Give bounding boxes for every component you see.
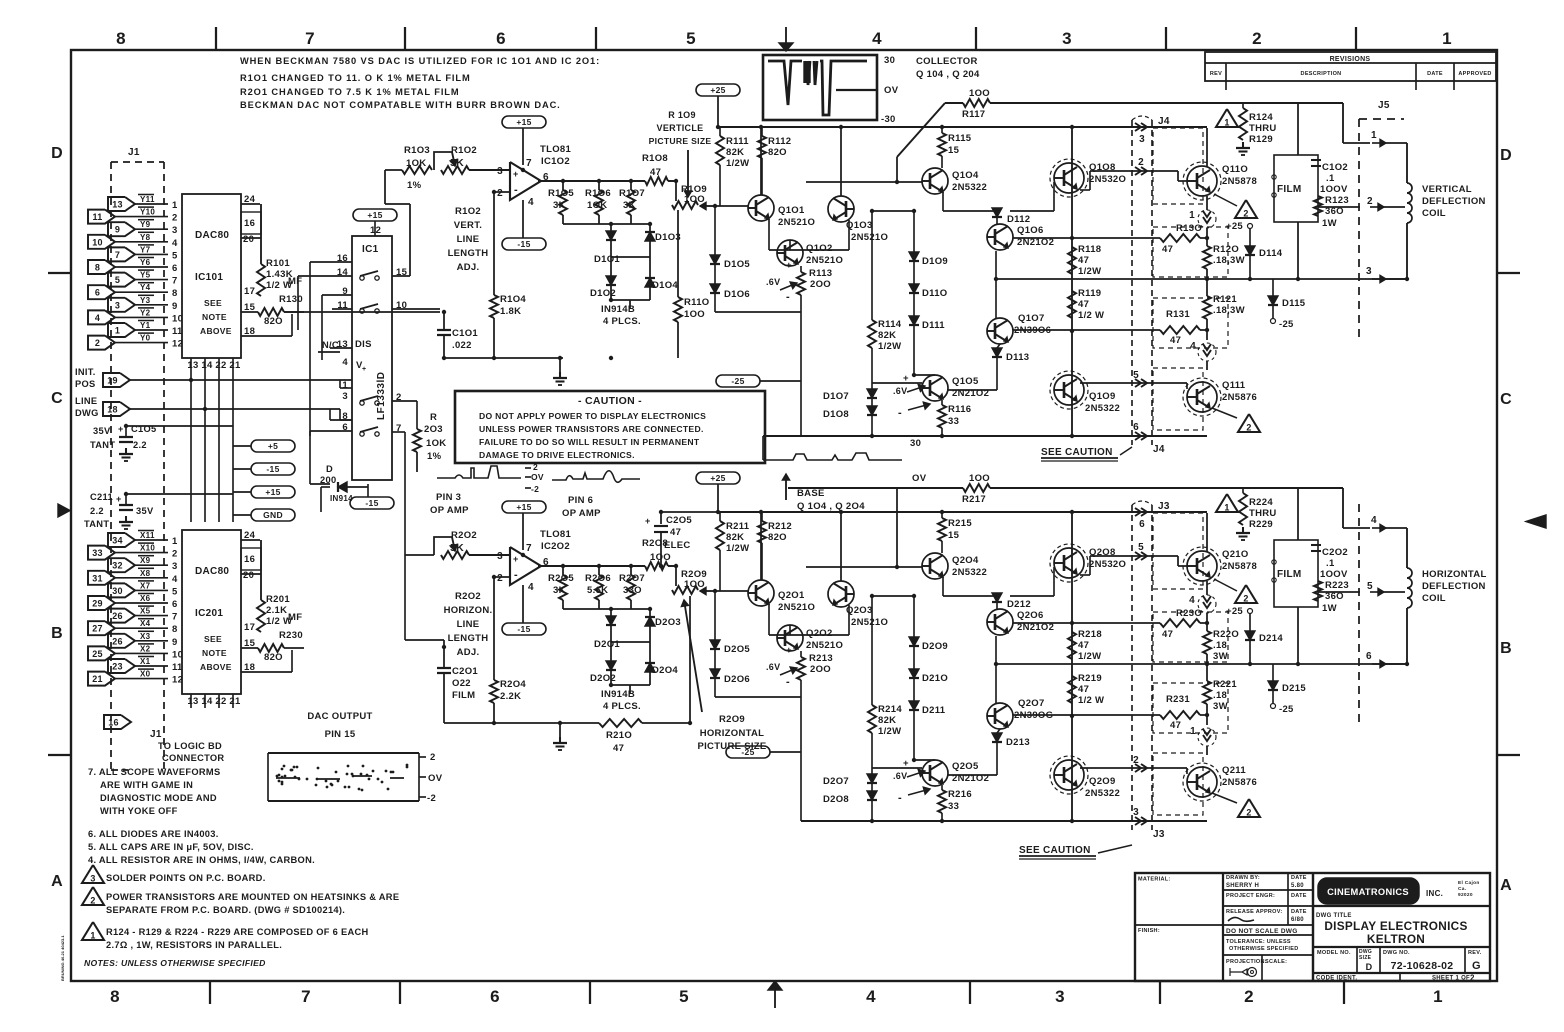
svg-text:1%: 1% (427, 451, 442, 462)
svg-text:21: 21 (229, 696, 241, 707)
wire bottom rail (763, 435, 1207, 437)
transistor Q111 (1187, 382, 1217, 412)
svg-text:13: 13 (112, 200, 123, 210)
svg-text:5. ALL CAPS ARE IN μF, 5: 5. ALL CAPS ARE IN μF, 5OV, DISC. (88, 842, 254, 852)
svg-text:BECKMAN DAC NOT COMPATABLE: BECKMAN DAC NOT COMPATABLE WITH BURR BRO… (240, 100, 561, 110)
connector flag 13 (108, 197, 135, 211)
svg-text:CONNECTOR: CONNECTOR (162, 753, 224, 763)
svg-text:D1O5: D1O5 (724, 259, 750, 270)
svg-text:4: 4 (1189, 595, 1195, 606)
connector flag 21 (88, 672, 115, 686)
svg-text:INC.: INC. (1426, 889, 1443, 898)
IC1 switch (360, 401, 364, 405)
wire film box bottom (1297, 607, 1299, 664)
svg-text:+15: +15 (516, 117, 531, 127)
resistor R13O (1160, 234, 1200, 242)
svg-text:4: 4 (342, 357, 348, 368)
svg-text:R214: R214 (878, 704, 902, 715)
svg-text:OTHERWISE SPECIFIED: OTHERWISE SPECIFIED (1229, 946, 1298, 952)
svg-text:D: D (51, 145, 63, 162)
svg-text:82K: 82K (726, 532, 744, 543)
svg-text:C1O1: C1O1 (452, 328, 478, 339)
svg-text:- CAUTION -: - CAUTION - (578, 395, 642, 407)
resistor R224 thru R229 (1242, 488, 1244, 493)
connector flag 9 (108, 222, 135, 236)
wire feedback (385, 169, 402, 171)
svg-text:ADJ.: ADJ. (457, 262, 480, 273)
svg-text:X7: X7 (140, 581, 151, 590)
J4 pin 3 (1135, 123, 1141, 131)
svg-text:R: R (430, 412, 437, 423)
svg-text:2N521O: 2N521O (806, 255, 843, 266)
svg-text:A: A (1500, 877, 1512, 894)
svg-text:R1O2: R1O2 (455, 206, 481, 217)
resistor R2O6 (595, 575, 603, 600)
wire mid rail (996, 663, 1406, 665)
svg-text:D114: D114 (1259, 248, 1283, 259)
svg-text:15: 15 (948, 145, 960, 156)
wire emitters (768, 604, 770, 635)
svg-text:1: 1 (1224, 118, 1229, 128)
svg-text:2N5322: 2N5322 (952, 567, 987, 578)
transistor Q1O6 (987, 224, 1013, 250)
svg-text:VERTICAL: VERTICAL (1422, 184, 1472, 195)
svg-text:3: 3 (342, 391, 348, 402)
svg-text:RELEASE APPROV:: RELEASE APPROV: (1226, 909, 1283, 915)
svg-text:3: 3 (497, 551, 503, 562)
svg-text:1OO: 1OO (684, 579, 705, 590)
wire opamp output (538, 180, 645, 182)
svg-text:R1O1 CHANGED TO 11. O K 1%: R1O1 CHANGED TO 11. O K 1% METAL FILM (240, 73, 471, 83)
connector node 4 (1206, 581, 1208, 595)
wire bridge bottom (611, 684, 650, 686)
svg-text:12: 12 (172, 339, 183, 350)
svg-text:1OOV: 1OOV (1320, 184, 1348, 195)
svg-text:R221: R221 (1213, 679, 1237, 690)
svg-text:2N5876: 2N5876 (1222, 392, 1257, 403)
warning triangle 1 R124 (1216, 109, 1238, 127)
svg-text:Q11O: Q11O (1222, 164, 1248, 175)
wire base line (806, 566, 922, 568)
svg-text:SEE: SEE (204, 634, 222, 644)
svg-text:X9: X9 (140, 556, 151, 565)
wire bridge top (562, 600, 564, 609)
svg-text:4: 4 (1371, 515, 1377, 526)
wire Q06 emitter chain (995, 636, 997, 703)
svg-text:DO NOT APPLY POWER TO DIS: DO NOT APPLY POWER TO DISPLAY ELECTRONIC… (479, 411, 706, 421)
connector flag 2 (88, 336, 115, 350)
wire base line (806, 181, 922, 183)
transistor Q2O2 (777, 625, 803, 651)
svg-text:R218: R218 (1078, 629, 1102, 640)
svg-text:1: 1 (1371, 130, 1377, 141)
svg-text:7: 7 (526, 543, 532, 554)
connector J3 dashed (1131, 505, 1133, 830)
svg-text:1.8K: 1.8K (500, 306, 521, 317)
wire rail B (718, 511, 1207, 513)
resistor R223 (1314, 581, 1322, 601)
svg-text:82O: 82O (264, 316, 283, 327)
svg-text:Q2O1: Q2O1 (778, 590, 805, 601)
svg-text:1OOV: 1OOV (1320, 569, 1348, 580)
svg-text:MF: MF (288, 612, 302, 623)
svg-text:R211: R211 (726, 521, 750, 532)
svg-text:+25: +25 (1226, 221, 1243, 232)
svg-text:CODE IDENT.: CODE IDENT. (1316, 976, 1357, 982)
svg-text:LENGTH: LENGTH (448, 633, 489, 644)
svg-text:4: 4 (172, 238, 178, 249)
svg-text:CINEMATRONICS: CINEMATRONICS (1327, 887, 1409, 897)
svg-text:6: 6 (1366, 651, 1372, 662)
resistor R219 (1068, 676, 1076, 703)
svg-text:R1O6: R1O6 (585, 188, 611, 199)
svg-text:82K: 82K (726, 147, 744, 158)
svg-text:R118: R118 (1078, 244, 1101, 255)
svg-text:7: 7 (526, 158, 532, 169)
svg-text:LINE: LINE (75, 396, 97, 406)
svg-text:UNLESS POWER TRANSISTORS AR: UNLESS POWER TRANSISTORS ARE CONNECTED. (479, 424, 704, 434)
svg-text:IN914B: IN914B (601, 304, 635, 315)
svg-text:R121: R121 (1213, 294, 1237, 305)
svg-text:6: 6 (1139, 519, 1145, 530)
svg-text:X4: X4 (140, 619, 151, 628)
svg-text:R12O: R12O (1213, 244, 1239, 255)
svg-text:1/2W: 1/2W (1078, 266, 1101, 277)
svg-text:.1: .1 (1326, 173, 1335, 184)
wire diode chain (913, 596, 915, 637)
svg-text:HORIZONTAL: HORIZONTAL (700, 728, 765, 739)
svg-text:+: + (786, 260, 792, 271)
capacitor C2O2 (1311, 544, 1321, 546)
svg-text:IC1: IC1 (362, 244, 379, 255)
wire Q06 emitter chain (995, 251, 997, 318)
svg-text:5: 5 (686, 29, 696, 48)
resistor R124 thru R129 (1242, 103, 1244, 108)
svg-text:35V: 35V (136, 506, 154, 516)
svg-text:OV: OV (912, 473, 927, 484)
note 3 (82, 865, 104, 883)
svg-text:2N5878: 2N5878 (1222, 176, 1257, 187)
svg-text:Q2O7: Q2O7 (1018, 698, 1045, 709)
svg-text:Q1O1: Q1O1 (778, 205, 805, 216)
diode D2O5 (714, 591, 716, 640)
wire IC1 pin16 (310, 261, 352, 263)
resistor R114 (871, 250, 873, 320)
power pill -15 (251, 463, 295, 475)
zone ticks top (215, 27, 217, 50)
svg-text:7. ALL SCOPE WAVEFORMS: 7. ALL SCOPE WAVEFORMS (88, 767, 220, 777)
connector flag 31 (88, 571, 115, 585)
svg-text:2: 2 (1244, 987, 1254, 1006)
connector flag 1 (108, 323, 135, 337)
connector J5 dashed V (1358, 119, 1360, 340)
svg-text:R2O2: R2O2 (451, 530, 477, 541)
svg-text:R216: R216 (948, 789, 972, 800)
connector node 1 (1206, 196, 1208, 210)
svg-text:R2O1 CHANGED TO 7.5 K 1%: R2O1 CHANGED TO 7.5 K 1% METAL FILM (240, 87, 460, 97)
svg-text:J3: J3 (1158, 501, 1170, 512)
svg-text:33: 33 (948, 801, 959, 812)
svg-text:Q211: Q211 (1222, 765, 1246, 776)
wire Q04 emitter (942, 192, 944, 211)
svg-text:D1O7: D1O7 (823, 391, 849, 402)
svg-text:29: 29 (92, 599, 103, 609)
svg-text:Q2O2: Q2O2 (806, 628, 833, 639)
svg-text:1%: 1% (407, 180, 422, 191)
svg-text:R2O6: R2O6 (585, 573, 611, 584)
svg-text:2.2: 2.2 (133, 440, 147, 450)
pin 3 waveform (437, 466, 521, 478)
connector flag 33 (88, 546, 115, 560)
svg-text:X6: X6 (140, 594, 151, 603)
svg-text:SOLDER POINTS ON P.C. BOARD: SOLDER POINTS ON P.C. BOARD. (106, 873, 266, 883)
svg-text:9: 9 (172, 637, 178, 648)
svg-text:IN914B: IN914B (601, 689, 635, 700)
transistor Q1O8 (1054, 163, 1084, 193)
wire long vertical (1071, 512, 1073, 821)
connector flag 3 (108, 298, 135, 312)
svg-text:D11O: D11O (922, 288, 948, 299)
resistor R212 (761, 512, 763, 521)
svg-text:GND: GND (263, 510, 283, 520)
connector flag 29 (88, 596, 115, 610)
warning triangle 2 Q11O (1214, 194, 1237, 206)
transistor Q2O7 (987, 703, 1013, 729)
svg-text:8: 8 (110, 987, 120, 1006)
wire rail drop (896, 488, 898, 567)
connector flag 7 (108, 247, 135, 261)
svg-text:5: 5 (679, 987, 689, 1006)
resistor R215 (941, 512, 943, 518)
resistor R2O4 (490, 680, 498, 703)
svg-text:2: 2 (1470, 974, 1475, 983)
svg-text:D2O1: D2O1 (594, 639, 620, 650)
svg-text:SEE CAUTION: SEE CAUTION (1041, 447, 1113, 458)
svg-text:DATE: DATE (1427, 71, 1443, 77)
svg-text:R1O7: R1O7 (619, 188, 645, 199)
svg-text:33: 33 (92, 548, 103, 558)
svg-text:1OO: 1OO (969, 473, 990, 484)
resistor R211 (719, 512, 721, 521)
diode D1O3 (649, 224, 651, 232)
connector node 1 (1198, 728, 1216, 746)
svg-text:D115: D115 (1282, 298, 1306, 309)
power pill +15 (251, 486, 295, 498)
svg-text:R 1O9: R 1O9 (668, 110, 696, 120)
svg-text:2: 2 (533, 462, 538, 472)
power pill -25 V (716, 375, 760, 387)
svg-text:LINE: LINE (457, 234, 480, 245)
diode D1O6 (714, 264, 716, 284)
svg-text:D2O2: D2O2 (590, 673, 616, 684)
svg-text:SEE CAUTION: SEE CAUTION (1019, 845, 1091, 856)
svg-text:TLO81: TLO81 (540, 144, 571, 155)
svg-text:Q1O5: Q1O5 (952, 376, 979, 387)
transistor Q1O9 (1054, 375, 1084, 405)
transistor Q11O (1187, 166, 1217, 196)
svg-text:A: A (51, 873, 63, 890)
svg-text:R2O4: R2O4 (500, 679, 526, 690)
svg-text:R115: R115 (948, 133, 972, 144)
svg-text:R224: R224 (1249, 497, 1273, 508)
film capacitor box C1O2 (1274, 155, 1318, 222)
svg-text:2O3: 2O3 (424, 424, 443, 435)
svg-text:X5: X5 (140, 607, 151, 616)
svg-text:BRUNING 40-21 40423.1: BRUNING 40-21 40423.1 (60, 935, 65, 981)
svg-text:DIAGNOSTIC MODE AND: DIAGNOSTIC MODE AND (100, 793, 217, 803)
svg-text:8: 8 (172, 288, 178, 299)
svg-text:-30: -30 (881, 114, 896, 125)
svg-text:R213: R213 (809, 653, 833, 664)
IC101 pins 16 20 box (241, 212, 261, 234)
svg-text:SIZE: SIZE (1359, 955, 1372, 961)
svg-text:3: 3 (90, 874, 95, 884)
connector flag 26 (108, 634, 135, 648)
svg-text:J3: J3 (1153, 829, 1165, 840)
svg-text:IC2O2: IC2O2 (541, 541, 570, 552)
svg-text:Y7: Y7 (140, 245, 151, 254)
svg-text:+15: +15 (265, 487, 280, 497)
svg-text:1/2 W: 1/2 W (1078, 310, 1104, 321)
wire opamp input (469, 169, 510, 171)
svg-text:TLO81: TLO81 (540, 529, 571, 540)
svg-text:Q2O6: Q2O6 (1017, 610, 1044, 621)
wire -25 feed (770, 751, 801, 753)
svg-text:10: 10 (92, 237, 103, 247)
svg-text:2: 2 (90, 896, 95, 906)
diode D1O5 (714, 206, 716, 255)
svg-text:X1: X1 (140, 657, 151, 666)
wire Q08 emitter to pin (1080, 574, 1090, 576)
film capacitor box C2O2 (1274, 540, 1318, 607)
svg-text:B: B (51, 625, 63, 642)
svg-text:1/2W: 1/2W (726, 543, 749, 554)
svg-text:2.7Ω , 1W, RESISTORS IN PAR: 2.7Ω , 1W, RESISTORS IN PARALLEL. (106, 940, 282, 950)
J4 pin 2 (1135, 167, 1141, 175)
svg-text:R101: R101 (266, 258, 290, 269)
svg-text:THRU: THRU (1249, 508, 1277, 519)
warning triangle 1 R224 (1216, 494, 1238, 512)
svg-text:MATERIAL:: MATERIAL: (1138, 877, 1171, 883)
svg-text:4. ALL RESISTOR ARE IN OH: 4. ALL RESISTOR ARE IN OHMS, I/4W, CARBO… (88, 855, 315, 865)
connector flag 25 (88, 646, 115, 660)
svg-text:+: + (362, 366, 366, 373)
svg-text:R11O: R11O (684, 297, 710, 308)
svg-text:3: 3 (497, 166, 503, 177)
svg-text:R2O5: R2O5 (548, 573, 574, 584)
svg-text:2: 2 (430, 752, 436, 763)
svg-text:1OO: 1OO (684, 309, 705, 320)
zone ticks sides (48, 272, 71, 274)
resistor R113 (800, 266, 802, 272)
connector J5 dashed H (1358, 504, 1360, 725)
svg-text:.18: .18 (1213, 640, 1227, 651)
svg-text:ELEC: ELEC (664, 540, 691, 551)
svg-text:NOTES: UNLESS OTHERWISE SPECIF: NOTES: UNLESS OTHERWISE SPECIFIED (84, 958, 266, 968)
resistor R101 (260, 252, 262, 264)
wire IC1 pin11 (332, 308, 352, 310)
svg-text:-: - (898, 407, 902, 419)
svg-text:R129: R129 (1249, 134, 1273, 145)
svg-text:33: 33 (948, 416, 959, 427)
svg-text:4: 4 (95, 313, 100, 323)
svg-text:ADJ.: ADJ. (457, 647, 480, 658)
svg-text:92020: 92020 (1458, 892, 1473, 898)
svg-text:B: B (1500, 640, 1512, 657)
svg-text:J5: J5 (1378, 100, 1390, 111)
J4 pin 5 (1135, 379, 1141, 387)
wire emitter bus (715, 311, 801, 313)
diode D111 (909, 316, 919, 325)
deflection coil HORIZONTAL (1407, 568, 1412, 608)
svg-text:13: 13 (187, 696, 198, 707)
svg-text:D1O2: D1O2 (590, 288, 616, 299)
svg-text:2: 2 (497, 573, 503, 584)
svg-text:R114: R114 (878, 319, 902, 330)
svg-text:REV.: REV. (1468, 950, 1482, 956)
wire opamp minus input (494, 576, 510, 578)
title block (1135, 873, 1490, 981)
transistor Q1O1 (748, 195, 774, 221)
svg-text:47: 47 (1078, 640, 1089, 651)
resistor R110 (677, 210, 679, 297)
svg-text:D: D (1366, 962, 1373, 972)
svg-text:OV: OV (428, 773, 443, 784)
resistor R1O4 (490, 295, 498, 318)
svg-text:PROJECTION:: PROJECTION: (1226, 959, 1267, 965)
svg-text:-15: -15 (517, 239, 530, 249)
connector flag 4 (88, 310, 115, 324)
svg-text:IC101: IC101 (195, 272, 223, 283)
svg-text:FILM: FILM (452, 690, 475, 701)
note 1 (82, 922, 104, 940)
svg-text:2N521O: 2N521O (806, 640, 843, 651)
svg-text:47: 47 (1078, 299, 1089, 310)
potentiometer R1O9 (672, 201, 698, 209)
svg-text:POWER TRANSISTORS ARE MOUNT: POWER TRANSISTORS ARE MOUNTED ON HEATSIN… (106, 892, 399, 902)
svg-text:3: 3 (1133, 807, 1139, 818)
svg-text:D2O8: D2O8 (823, 794, 849, 805)
wire opamp input (469, 554, 510, 556)
wire bridge mid (611, 256, 650, 258)
svg-text:SEE: SEE (204, 298, 222, 308)
diode D113 (997, 344, 1000, 348)
pin 6 waveform (552, 471, 640, 483)
wire -25 feed (760, 380, 801, 382)
svg-text:16: 16 (108, 718, 119, 728)
svg-text:O22: O22 (452, 678, 471, 689)
svg-text:1OO: 1OO (969, 88, 990, 99)
svg-text:COIL: COIL (1422, 208, 1446, 219)
svg-text:Q1O7: Q1O7 (1018, 313, 1045, 324)
potentiometer R2O9 (672, 586, 698, 594)
svg-text:ARE WITH GAME IN: ARE WITH GAME IN (100, 780, 193, 790)
resistor R2O8 (645, 562, 668, 570)
svg-text:6. ALL DIODES ARE IN4003.: 6. ALL DIODES ARE IN4003. (88, 829, 219, 839)
diode D1O8 (867, 406, 877, 415)
svg-text:D2O5: D2O5 (724, 644, 750, 655)
svg-text:5: 5 (1367, 581, 1373, 592)
svg-text:R217: R217 (962, 494, 986, 505)
svg-text:8: 8 (172, 624, 178, 635)
wire R1O9 wiper (700, 205, 716, 207)
svg-text:D113: D113 (1006, 352, 1029, 363)
svg-text:2N5322: 2N5322 (952, 182, 987, 193)
transistor Q21O (1187, 551, 1217, 581)
connector flag 27 (88, 621, 115, 635)
wire mid rail (996, 278, 1406, 280)
svg-text:7: 7 (115, 250, 120, 260)
